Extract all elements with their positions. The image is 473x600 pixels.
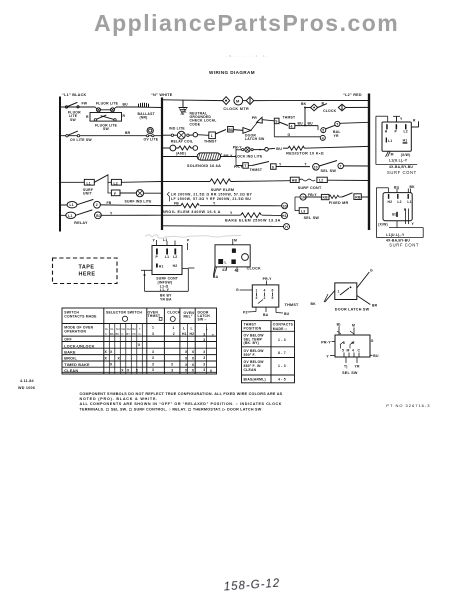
- svg-text:10: 10: [314, 165, 318, 169]
- svg-text:RB: RB: [355, 195, 361, 199]
- switch SEL SW (component): [321, 323, 379, 376]
- svg-text:L2: L2: [404, 129, 408, 133]
- coil (A6D) with resistor: [162, 145, 198, 155]
- svg-text:CLEAN: CLEAN: [244, 368, 257, 372]
- table switch contacts (text): [64, 310, 214, 373]
- tape here box: [53, 258, 118, 284]
- svg-text:CLOCK: CLOCK: [247, 267, 261, 271]
- svg-text:L1: L1: [388, 139, 392, 143]
- contact box L1 SURF UNIT: [83, 175, 108, 196]
- svg-text:LF 1500W, 57.3Ω Y RF 2600W: LF 1500W, 57.3Ω Y RF 2600W, 21.5Ω BU: [171, 197, 251, 201]
- svg-text:CH: CH: [121, 327, 125, 331]
- svg-text:L: L: [183, 326, 185, 330]
- svg-text:M: M: [347, 349, 350, 353]
- svg-text:3: 3: [152, 356, 154, 360]
- wire G line: [274, 124, 320, 137]
- svg-text:3: 3: [152, 332, 154, 336]
- svg-text:2: 2: [96, 203, 98, 207]
- solenoid SOLENOID 16.6A: [162, 153, 236, 168]
- svg-text:H1: H1: [159, 264, 164, 268]
- svg-text:L1(U.L),-Y: L1(U.L),-Y: [389, 159, 408, 163]
- svg-text:3: 3: [171, 368, 173, 372]
- svg-text:SW ⌐: SW ⌐: [198, 317, 207, 321]
- svg-text:MADE □: MADE □: [273, 327, 287, 331]
- BUSES: [59, 93, 370, 232]
- switch FLUOR LITE SW: [65, 102, 87, 122]
- svg-text:G: G: [139, 332, 141, 336]
- svg-text:REL⌜: REL⌜: [184, 315, 193, 319]
- motor CLOCK MTR: [223, 96, 254, 111]
- svg-text:1N: 1N: [301, 196, 306, 200]
- bus L1 (left, "L1" BLACK): [59, 93, 87, 232]
- svg-text:SEL SW: SEL SW: [304, 216, 320, 220]
- contact box L3 SEL SW: [295, 197, 319, 220]
- svg-text:THMST: THMST: [285, 303, 299, 307]
- svg-text:SOLENOID 16.6A: SOLENOID 16.6A: [187, 164, 221, 168]
- svg-text:42: 42: [235, 269, 239, 273]
- svg-text:TIMED BAKE: TIMED BAKE: [64, 363, 90, 367]
- svg-text:L1: L1: [165, 255, 169, 259]
- svg-text:4 - 5: 4 - 5: [278, 378, 286, 382]
- svg-text:4X-BA,BY-BU: 4X-BA,BY-BU: [389, 165, 413, 169]
- svg-text:M: M: [352, 324, 355, 328]
- svg-text:PR-Y: PR-Y: [233, 145, 242, 149]
- svg-text:RELAY: RELAY: [74, 221, 88, 225]
- svg-text:FLUOR LITE: FLUOR LITE: [96, 101, 119, 105]
- svg-text:TAPE: TAPE: [79, 265, 95, 271]
- table switch contacts (frame): [62, 308, 217, 374]
- contact boxes HB / L2 SURF CONT: [290, 177, 369, 190]
- svg-text:BU: BU: [298, 121, 304, 125]
- svg-text:C: C: [105, 332, 107, 336]
- svg-text:3: 3: [152, 362, 154, 366]
- svg-text:CH: CH: [127, 327, 131, 331]
- svg-text:UNIT: UNIT: [83, 192, 92, 196]
- wire BK vertical: [304, 108, 306, 125]
- svg-text:ALL COMPONENTS ARE SHOWN IN “O: ALL COMPONENTS ARE SHOWN IN “OFF” OR “RE…: [80, 402, 282, 406]
- svg-text:CLEAN: CLEAN: [64, 369, 78, 373]
- svg-text:BU: BU: [276, 147, 282, 151]
- svg-text:WIRING DIAGRAM: WIRING DIAGRAM: [209, 70, 255, 75]
- svg-text:BIAS(ARML): BIAS(ARML): [244, 378, 266, 382]
- contact box 1 (THMST): [198, 132, 218, 144]
- svg-text:H1: H1: [182, 332, 187, 336]
- svg-text:LATCH SW: LATCH SW: [245, 137, 265, 141]
- svg-text:“N” WHITE: “N” WHITE: [151, 93, 173, 97]
- contact box BU: [215, 127, 234, 135]
- svg-text:BROIL ELEM 3400W 16.6 A: BROIL ELEM 3400W 16.6 A: [162, 210, 221, 214]
- svg-text:RELAY COIL: RELAY COIL: [171, 140, 193, 144]
- svg-text:FW: FW: [82, 102, 88, 106]
- svg-text:4: 4: [291, 125, 293, 129]
- svg-text:4: 4: [322, 136, 324, 140]
- contact box S: [262, 116, 296, 124]
- MIDTOP: [162, 96, 369, 126]
- svg-text:SELECTOR SWITCH: SELECTOR SWITCH: [106, 310, 142, 314]
- relay FIXED MR row: [295, 193, 369, 205]
- svg-text:6: 6: [272, 165, 274, 169]
- svg-text:8 - 7: 8 - 7: [278, 351, 286, 355]
- svg-text:L1: L1: [70, 203, 74, 207]
- svg-text:DOOR LATCH SW: DOOR LATCH SW: [335, 308, 370, 312]
- svg-text:H: H: [285, 225, 288, 229]
- svg-text:(NR): (NR): [140, 116, 148, 120]
- svg-text:C: C: [358, 349, 361, 353]
- wire row A: [60, 106, 95, 108]
- svg-text:550° F.: 550° F.: [244, 353, 256, 357]
- control SURF CONT (INFSW): [141, 238, 195, 302]
- svg-text:6: 6: [272, 289, 274, 293]
- LEFTROWS: [60, 101, 162, 225]
- svg-text:3: 3: [203, 356, 205, 360]
- svg-text:3: 3: [203, 338, 205, 342]
- svg-text:L1: L1: [163, 238, 167, 242]
- svg-text:2: 2: [173, 332, 175, 336]
- svg-text:BA: BA: [213, 275, 219, 279]
- svg-text:(A6D): (A6D): [176, 151, 186, 155]
- svg-text:BK: BK: [301, 102, 307, 106]
- svg-text:OPERATION: OPERATION: [64, 329, 86, 333]
- svg-text:3: 3: [171, 363, 173, 367]
- svg-text:L: L: [191, 326, 193, 330]
- connector block SURF CONT (lower right): [376, 185, 423, 247]
- svg-text:OV LITE SW: OV LITE SW: [70, 138, 92, 142]
- contact box L2: [108, 179, 162, 185]
- svg-text:FIXED MR: FIXED MR: [329, 201, 349, 205]
- relay contact row E: [60, 210, 162, 225]
- svg-text:F: F: [114, 192, 116, 196]
- svg-text:SW: SW: [70, 118, 76, 122]
- svg-text:TERMINALS. ▢ SEL SW. ▢ SURF: TERMINALS. ▢ SEL SW. ▢ SURF CONTROL. ○ R…: [80, 407, 262, 411]
- svg-text:CODE: CODE: [190, 122, 201, 126]
- svg-text:G: G: [236, 288, 239, 292]
- svg-text:CL: CL: [110, 327, 114, 331]
- svg-text:BK: BK: [311, 302, 317, 306]
- svg-text:L: L: [225, 260, 227, 264]
- lamp IND LITE (relay coil pilot): [162, 127, 198, 144]
- TABLES: [62, 308, 295, 383]
- svg-text:FB: FB: [107, 201, 112, 205]
- RIGHTBOXES: [376, 116, 423, 247]
- wire top neutral line: [162, 99, 223, 102]
- svg-text:6: 6: [343, 341, 345, 345]
- svg-text:1: 1: [173, 326, 175, 330]
- connector DOOR LATCH SW (arrow pair): [233, 116, 265, 141]
- svg-text:R: R: [413, 119, 416, 123]
- svg-text:5: 5: [342, 349, 344, 353]
- footnotes: [80, 392, 283, 412]
- svg-text:L1(U.L),-Y: L1(U.L),-Y: [386, 233, 405, 237]
- bus N (center, "N" WHITE): [151, 93, 173, 230]
- svg-text:1 - 3: 1 - 3: [278, 338, 286, 342]
- contact circles 10 / 7 SEL SW: [305, 161, 370, 174]
- lamp OV LITE: [144, 128, 159, 142]
- svg-text:3: 3: [203, 368, 205, 372]
- inductor BALLAST (NR): [136, 103, 162, 120]
- svg-text:HERE: HERE: [79, 272, 96, 278]
- svg-text:L1: L1: [87, 181, 91, 185]
- svg-text:B)|: B)|: [394, 185, 399, 189]
- svg-text:FB: FB: [174, 201, 179, 205]
- svg-text:C: C: [122, 332, 124, 336]
- svg-text:CH: CH: [116, 327, 120, 331]
- svg-text:L3: L3: [301, 210, 305, 214]
- svg-text:LR 2600W, 21.5Ω Ω RR 1500W: LR 2600W, 21.5Ω Ω RR 1500W, 57.3Ω BY: [171, 193, 253, 197]
- svg-text:4: 4: [264, 289, 266, 293]
- svg-text:L2: L2: [397, 200, 401, 204]
- contact box F: [108, 182, 136, 196]
- svg-text:1: 1: [338, 290, 340, 294]
- svg-text:T): T): [344, 365, 348, 369]
- svg-text:G: G: [288, 133, 291, 137]
- switch DOOR LATCH SW: [311, 269, 378, 312]
- thermostat THMST: [236, 277, 299, 317]
- svg-text:CONTACTS MADE: CONTACTS MADE: [64, 315, 97, 319]
- svg-text:2: 2: [264, 296, 266, 300]
- svg-text:BA: BA: [263, 313, 269, 317]
- note NEUTRAL GROUNDED CHECK LOCAL CODE: [190, 111, 217, 126]
- svg-text:3: 3: [152, 350, 154, 354]
- svg-text:SURF IND LITE: SURF IND LITE: [125, 199, 153, 203]
- svg-text:L2: L2: [173, 255, 177, 259]
- svg-text:PT NO 326716-3: PT NO 326716-3: [386, 403, 430, 408]
- relay contact row D: [60, 200, 162, 209]
- svg-text:41: 41: [222, 268, 226, 272]
- switch box FLUOR LITE SW (interlock): [86, 113, 126, 132]
- svg-text:L1: L1: [68, 214, 72, 218]
- svg-text:CLOCK MTR: CLOCK MTR: [223, 107, 249, 111]
- svg-text:3: 3: [256, 296, 258, 300]
- svg-text:H1: H1: [403, 138, 408, 142]
- svg-text:BU: BU: [228, 128, 234, 132]
- pencil mark (faint): [145, 235, 241, 239]
- svg-text:RESISTOR 10 K•Ω: RESISTOR 10 K•Ω: [286, 152, 324, 156]
- svg-text:. ..s...... .: •. •-: . ..s...... .: •. •-: [220, 53, 268, 58]
- LOWERCOMP: [53, 238, 379, 375]
- svg-text:H2: H2: [173, 264, 178, 268]
- svg-text:1: 1: [211, 134, 213, 138]
- svg-text:BAKE ELEM 2500W 13.3A: BAKE ELEM 2500W 13.3A: [225, 219, 281, 223]
- switch OV LITE SW: [66, 131, 93, 142]
- table thmst positions: [242, 321, 295, 383]
- connector block SURF CONT (upper right): [376, 116, 419, 175]
- svg-text:3: 3: [203, 363, 205, 367]
- lamp FLUOR LITE (tube): [95, 101, 136, 112]
- svg-text:WD 1006: WD 1006: [18, 386, 35, 390]
- HEADER: [94, 10, 399, 75]
- bracket element ratings: [167, 192, 252, 201]
- svg-text:BA: BA: [110, 332, 114, 336]
- bus L2 (right, "L2" RED): [343, 93, 370, 230]
- svg-text:COMPONENT SYMBOLS DO NOT REFLE: COMPONENT SYMBOLS DO NOT REFLECT TRUE CO…: [80, 392, 283, 396]
- timer CLOCK (component box): [213, 239, 261, 279]
- svg-text:SEL SW: SEL SW: [321, 169, 337, 173]
- svg-text:IND LITE: IND LITE: [169, 127, 185, 131]
- svg-text:PR-Y: PR-Y: [263, 277, 272, 281]
- svg-text:PR-Y: PR-Y: [321, 340, 331, 344]
- svg-text:LOCK IND LITE: LOCK IND LITE: [235, 154, 263, 158]
- contact box 4 with BU dots: [279, 121, 318, 128]
- svg-text:3: 3: [203, 350, 205, 354]
- svg-text:BU: BU: [123, 102, 129, 106]
- svg-text:4.11.84: 4.11.84: [20, 379, 35, 383]
- svg-text:H: H: [385, 129, 388, 133]
- svg-text:SEL SW: SEL SW: [342, 371, 358, 375]
- svg-text:1 - 3: 1 - 3: [278, 364, 286, 368]
- svg-text:L2: L2: [114, 181, 118, 185]
- contact box T / THMST: [234, 163, 263, 172]
- svg-text:OFF: OFF: [64, 338, 71, 342]
- clock contact row (diamonds): [301, 102, 369, 113]
- svg-text:BR-Y: BR-Y: [224, 154, 234, 158]
- svg-text:KB: KB: [323, 196, 329, 200]
- ground (neutral grounded): [179, 100, 188, 115]
- svg-text:L2: L2: [319, 179, 323, 183]
- svg-text:L1- Y: L1- Y: [160, 288, 170, 292]
- svg-text:4: 4: [352, 349, 354, 353]
- svg-text:2: 2: [212, 334, 214, 338]
- svg-text:YR BA: YR BA: [160, 298, 172, 302]
- svg-text:AppliancePartsPros.com: AppliancePartsPros.com: [94, 10, 399, 36]
- svg-text:H1: H1: [282, 214, 287, 218]
- resistor BROIL ELEM: [162, 201, 288, 214]
- svg-text:“L1” BLACK: “L1” BLACK: [62, 93, 87, 97]
- svg-text:(BK. BY): (BK. BY): [244, 341, 260, 345]
- svg-text:(X/W): (X/W): [401, 153, 411, 157]
- svg-text:SURF CONT: SURF CONT: [298, 186, 322, 190]
- svg-text:YR: YR: [355, 365, 360, 369]
- svg-text:7: 7: [340, 164, 342, 168]
- svg-text:L1: L1: [407, 200, 411, 204]
- svg-text:1D: 1D: [282, 204, 287, 208]
- svg-text:CLOCK: CLOCK: [323, 109, 336, 113]
- svg-text:SURF CONT: SURF CONT: [389, 242, 419, 247]
- resistor BAKE ELEM: [162, 211, 288, 223]
- wire H row: [162, 224, 290, 230]
- svg-text:BU: BU: [373, 354, 379, 358]
- svg-text:BK: BK: [410, 185, 416, 189]
- svg-text:3: 3: [152, 368, 154, 372]
- contact circles 5 / 4 / T with blade to bus: [318, 121, 369, 140]
- svg-text:5: 5: [322, 129, 324, 133]
- svg-text:BAKE: BAKE: [64, 350, 76, 354]
- svg-text:R: R: [86, 115, 89, 119]
- wire vertical junction x236: [235, 148, 237, 165]
- svg-text:H2: H2: [190, 332, 195, 336]
- svg-text:BR: BR: [125, 131, 131, 135]
- resistor RESISTOR 10 K ohm: [276, 146, 369, 155]
- svg-text:BU: BU: [308, 121, 314, 125]
- svg-text:G: G: [370, 269, 373, 273]
- svg-text:PR: PR: [252, 116, 257, 120]
- svg-text:(X/W): (X/W): [378, 223, 388, 227]
- svg-text:M: M: [352, 341, 355, 345]
- svg-text:“L2” RED: “L2” RED: [343, 93, 362, 97]
- svg-text:YR: YR: [132, 332, 136, 336]
- svg-text:HB: HB: [292, 179, 298, 183]
- svg-text:M: M: [234, 239, 237, 243]
- svg-text:H2: H2: [388, 200, 393, 204]
- svg-text:SW: SW: [103, 127, 109, 131]
- svg-text:LOCK-UNLOCK: LOCK-UNLOCK: [64, 344, 94, 348]
- svg-text:G: G: [371, 339, 374, 343]
- svg-text:1: 1: [152, 326, 154, 330]
- MIDROWS: [145, 116, 369, 239]
- svg-text:R: R: [123, 114, 126, 118]
- svg-text:BU: BU: [284, 312, 290, 316]
- wire row C: [60, 181, 84, 183]
- svg-text:OV LITE: OV LITE: [144, 138, 159, 142]
- svg-text:CL: CL: [105, 327, 109, 331]
- svg-text:5: 5: [272, 296, 274, 300]
- svg-text:B: B: [322, 102, 325, 106]
- svg-text:1: 1: [206, 327, 208, 331]
- lamp SURF IND LITE: [125, 190, 163, 204]
- svg-text:THMST: THMST: [249, 168, 262, 172]
- svg-text:SURF CONT: SURF CONT: [387, 170, 417, 175]
- svg-text:SURF ELEM: SURF ELEM: [211, 188, 235, 192]
- svg-text:1: 1: [256, 289, 258, 293]
- svg-text:THMST: THMST: [204, 140, 217, 144]
- svg-text:B1: B1: [96, 214, 101, 218]
- svg-text:6H: 6H: [132, 327, 135, 331]
- svg-text:B): B): [337, 323, 341, 327]
- svg-text:NOTED (PRO). BLACK & WHITE.: NOTED (PRO). BLACK & WHITE.: [80, 397, 159, 401]
- svg-text:3: 3: [203, 333, 205, 337]
- svg-text:P2: P2: [243, 311, 248, 315]
- NOTES: [18, 379, 430, 593]
- wire row B: [60, 135, 162, 137]
- svg-text:BK: BK: [116, 332, 120, 336]
- svg-text:THMST: THMST: [283, 116, 296, 120]
- svg-text:BR: BR: [372, 304, 378, 308]
- svg-text:YR: YR: [334, 134, 339, 138]
- resistor SURF ELEM: [162, 179, 290, 192]
- svg-text:M: M: [391, 152, 394, 156]
- svg-text:BY: BY: [126, 332, 130, 336]
- lamp LOCK IND LITE: [233, 145, 275, 158]
- contact box 6: [248, 162, 310, 170]
- svg-text:BROIL: BROIL: [64, 357, 77, 361]
- svg-text:POSITION: POSITION: [244, 327, 262, 331]
- svg-text:CLOCK: CLOCK: [167, 311, 180, 315]
